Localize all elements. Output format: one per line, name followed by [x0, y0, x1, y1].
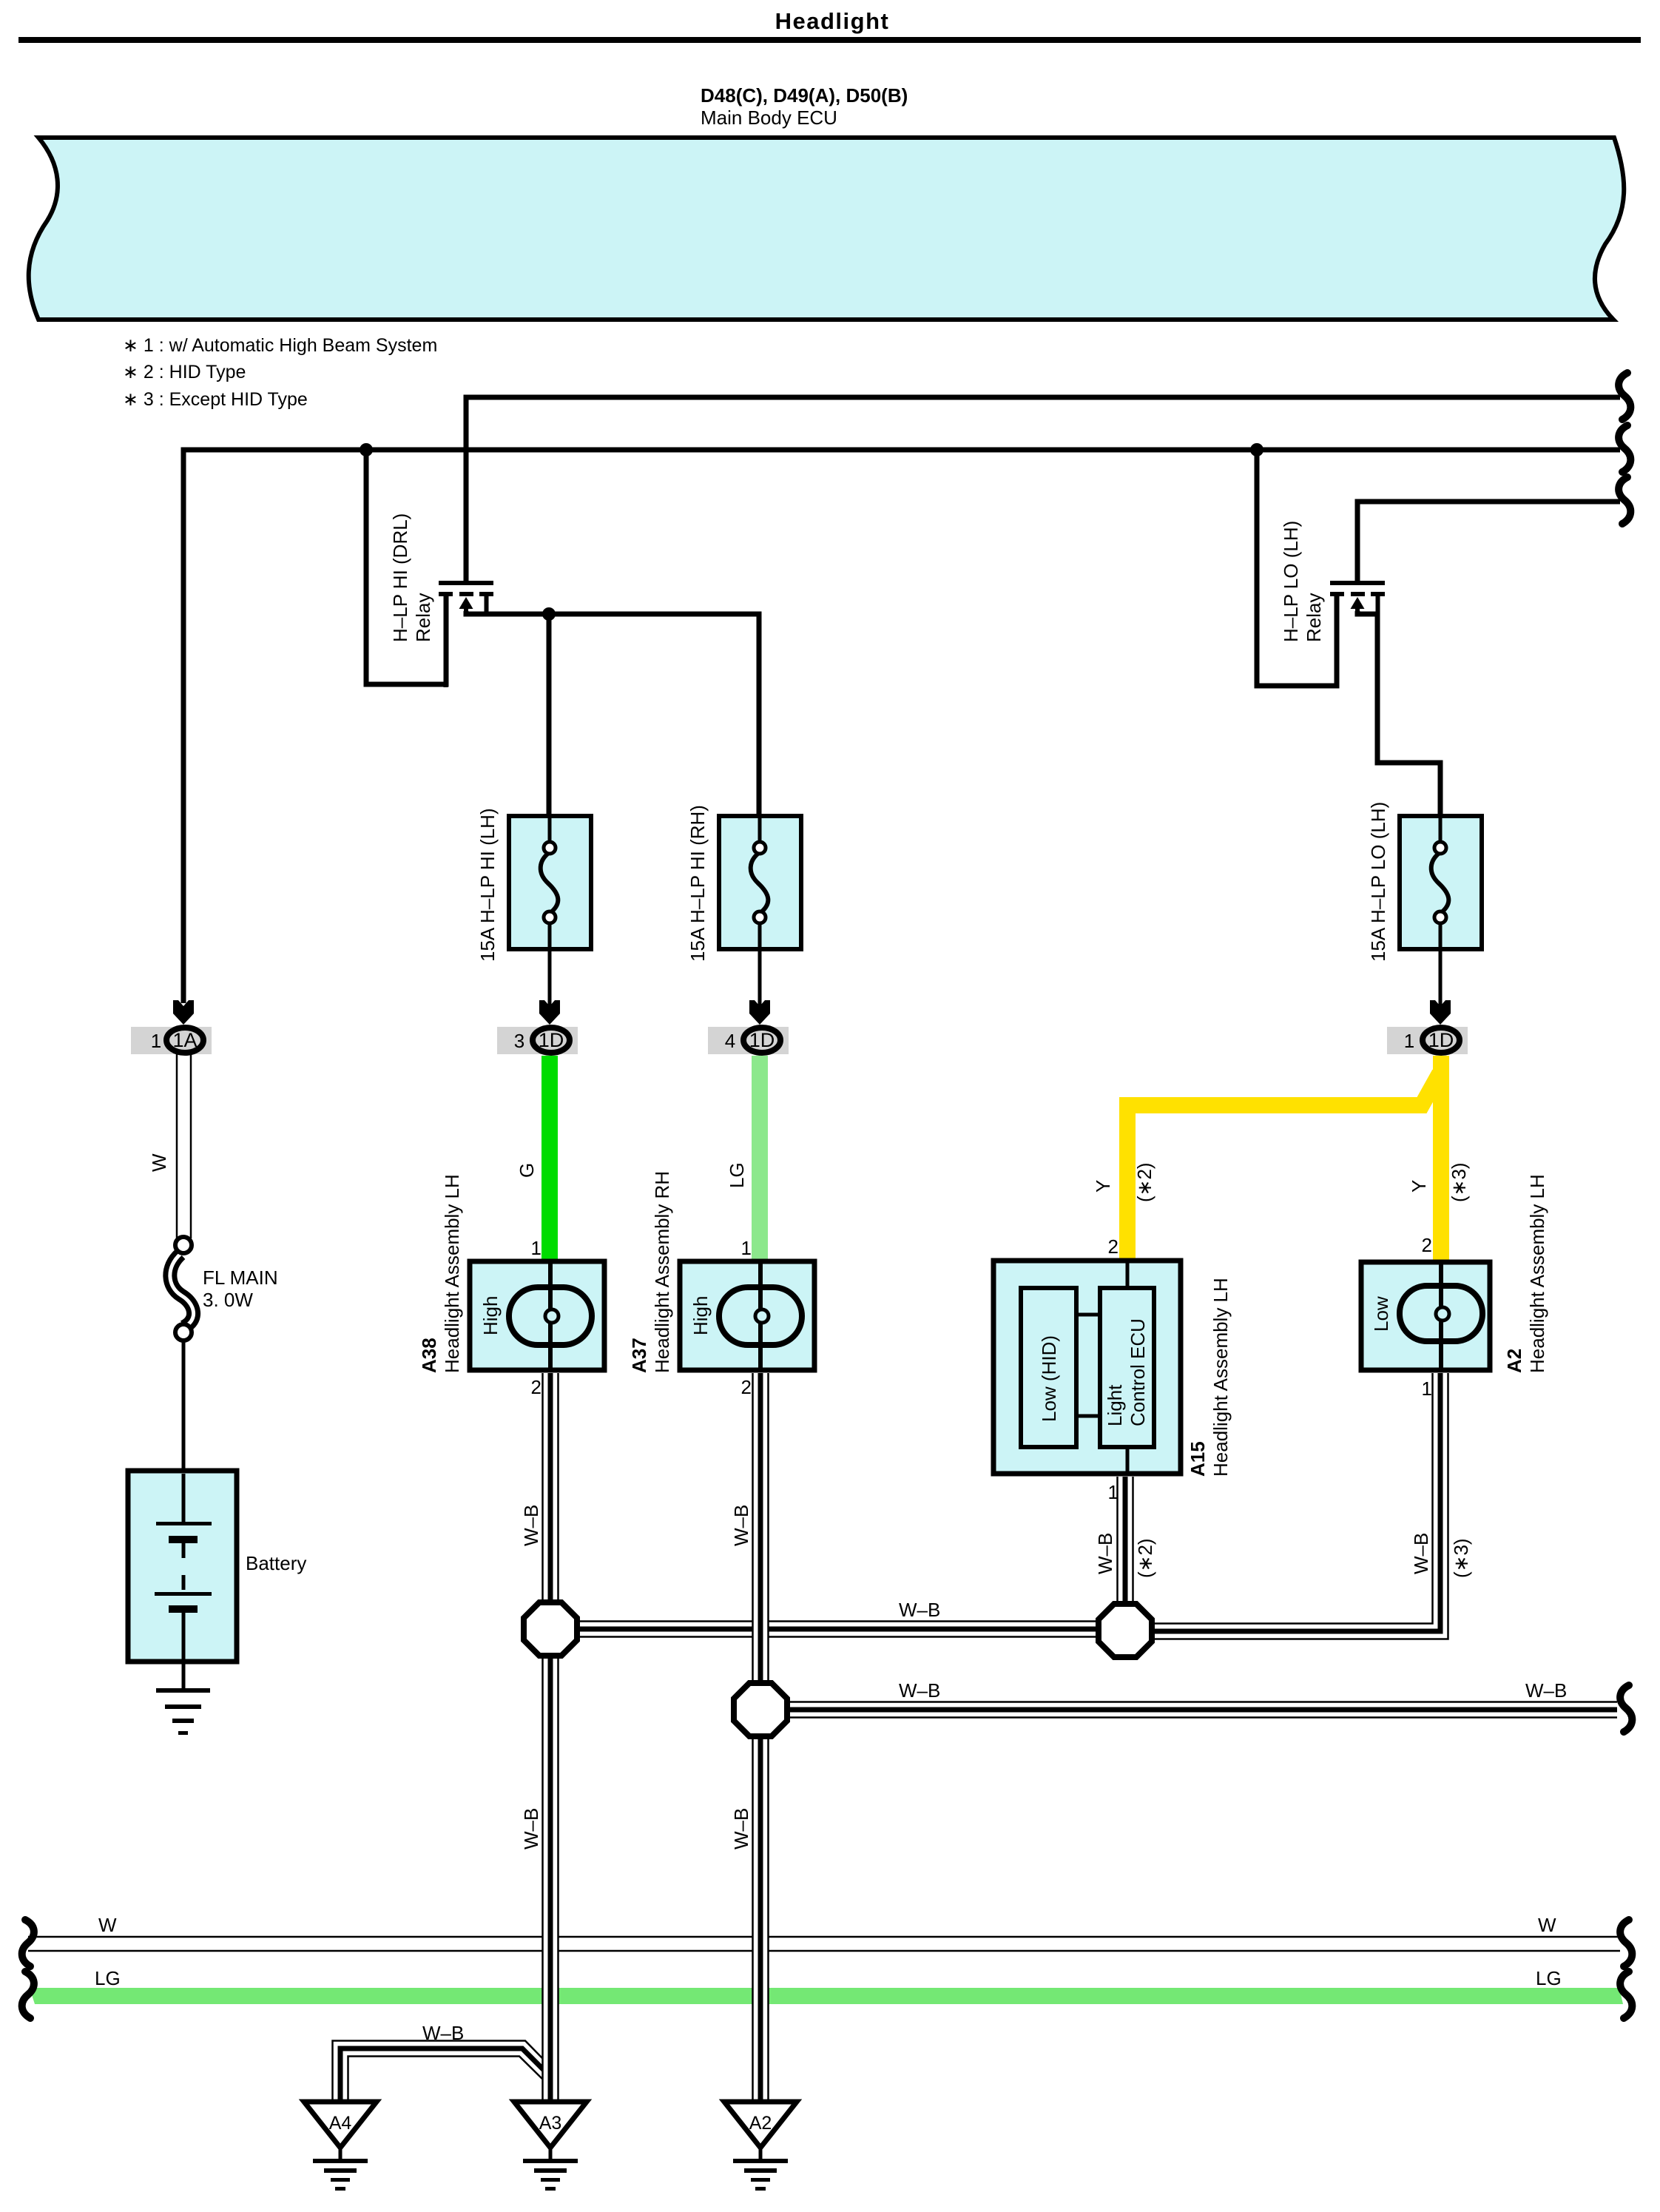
wire bus row2 main feed	[183, 450, 1620, 1003]
svg-text:H–LP HI (DRL): H–LP HI (DRL)	[389, 513, 411, 642]
svg-text:∗ 2 : HID Type: ∗ 2 : HID Type	[123, 362, 246, 382]
fuse 15A H-LP HI (LH)	[509, 816, 591, 1006]
svg-text:3: 3	[514, 1030, 524, 1052]
svg-text:3. 0W: 3. 0W	[203, 1289, 253, 1311]
svg-text:H–LP LO (LH): H–LP LO (LH)	[1280, 521, 1302, 642]
ground A4	[304, 2102, 377, 2191]
svg-text:(∗2): (∗2)	[1133, 1162, 1155, 1202]
fuse 15A H-LP LO (LH)	[1400, 816, 1482, 1006]
wire relay1 output branch to fuse1	[547, 614, 552, 818]
wire Y yellow branch to A15	[1127, 1073, 1440, 1262]
svg-text:W–B: W–B	[520, 1808, 542, 1849]
break left W	[22, 1920, 34, 1966]
fusible link FL MAIN 3.0W	[170, 1237, 194, 1341]
wire W white from 1A	[177, 1054, 191, 1238]
svg-text:High: High	[689, 1296, 712, 1335]
fuse 15A H-LP HI (RH)	[719, 816, 801, 1006]
svg-text:Battery: Battery	[246, 1552, 306, 1574]
svg-text:A37: A37	[628, 1338, 650, 1373]
svg-text:Control ECU: Control ECU	[1127, 1318, 1149, 1426]
svg-text:W–B: W–B	[520, 1505, 542, 1546]
label relay2	[1280, 521, 1325, 642]
battery	[128, 1471, 237, 1690]
svg-text:1: 1	[1422, 1378, 1432, 1400]
wire Y yellow to A2	[1433, 1056, 1449, 1262]
svg-text:A2: A2	[1503, 1349, 1525, 1373]
svg-text:1D: 1D	[539, 1029, 564, 1051]
svg-text:1: 1	[741, 1237, 752, 1259]
wire W-B A37 down to octagon2	[753, 1373, 769, 1683]
svg-text:∗ 3 : Except HID Type: ∗ 3 : Except HID Type	[123, 389, 308, 410]
connector 3 1D	[497, 1000, 578, 1054]
svg-text:Light: Light	[1104, 1384, 1126, 1426]
svg-text:Relay: Relay	[412, 593, 434, 642]
Main Body ECU band	[29, 138, 1624, 320]
svg-text:W–B: W–B	[730, 1808, 752, 1849]
break left LG	[22, 1972, 34, 2018]
wire LG light green	[752, 1056, 768, 1261]
svg-text:W: W	[148, 1153, 170, 1172]
break right W-B	[1620, 1685, 1632, 1732]
wire W-B octagon2 down to ground A2	[753, 1736, 769, 2100]
svg-text:1A: 1A	[172, 1029, 197, 1051]
junction octagon 1	[524, 1602, 577, 1656]
svg-text:15A H–LP HI (RH): 15A H–LP HI (RH)	[686, 805, 709, 962]
wire relay1 output to fuses	[466, 611, 759, 818]
junction octagon 3	[1099, 1604, 1152, 1657]
bus LG bottom	[30, 1988, 1623, 2004]
svg-text:G: G	[516, 1163, 538, 1178]
headlight assembly LH A15 (Low HID / Light Control ECU)	[993, 1261, 1181, 1474]
svg-text:Y: Y	[1408, 1180, 1430, 1193]
svg-text:Headlight Assembly LH: Headlight Assembly LH	[1209, 1278, 1232, 1477]
svg-text:A3: A3	[539, 2113, 562, 2134]
connector 4 1D	[708, 1000, 789, 1054]
svg-text:A15: A15	[1187, 1441, 1209, 1477]
svg-text:4: 4	[725, 1030, 735, 1052]
svg-text:1: 1	[531, 1237, 541, 1259]
ground battery	[156, 1688, 210, 1735]
svg-text:High: High	[479, 1296, 502, 1335]
svg-text:Low (HID): Low (HID)	[1038, 1335, 1060, 1422]
node junction relay1 output	[542, 607, 556, 621]
label relay1	[389, 513, 434, 642]
svg-text:(∗3): (∗3)	[1448, 1162, 1470, 1202]
break right LG	[1620, 1972, 1632, 2018]
bus W bottom	[28, 1937, 1620, 1951]
svg-text:1D: 1D	[1428, 1029, 1454, 1051]
svg-text:(∗3): (∗3)	[1450, 1538, 1472, 1578]
svg-text:LG: LG	[726, 1162, 748, 1188]
headlight assembly RH A37 (High)	[680, 1261, 814, 1370]
junction octagon 2	[734, 1683, 787, 1736]
svg-text:W–B: W–B	[730, 1505, 752, 1546]
wire G green	[541, 1056, 558, 1261]
svg-text:W–B: W–B	[899, 1679, 940, 1702]
svg-text:A2: A2	[749, 2113, 772, 2134]
relay H-LP LO (LH) contact	[1330, 581, 1385, 687]
wire relay1 coil loop	[366, 448, 446, 684]
wire W-B octagon3 to A2 pin1	[1145, 1373, 1448, 1639]
headlight assembly LH A2 (Low)	[1361, 1262, 1490, 1370]
svg-text:1D: 1D	[749, 1029, 775, 1051]
wire W-B octagon1 to octagon3	[570, 1622, 1106, 1637]
svg-text:W–B: W–B	[1410, 1533, 1432, 1574]
svg-text:W: W	[1538, 1914, 1556, 1936]
svg-text:1: 1	[151, 1030, 161, 1052]
relay H-LP HI (DRL) contact	[439, 581, 493, 687]
svg-text:Y: Y	[1092, 1180, 1114, 1193]
svg-text:W–B: W–B	[899, 1599, 940, 1621]
ground A2	[724, 2102, 797, 2191]
svg-text:(∗2): (∗2)	[1134, 1538, 1156, 1578]
break right row1	[1619, 373, 1630, 419]
node junction on row2 left	[360, 443, 373, 456]
wire W-B A4 jog	[333, 2041, 546, 2100]
svg-text:D48(C), D49(A), D50(B): D48(C), D49(A), D50(B)	[701, 84, 908, 107]
svg-text:1: 1	[1404, 1030, 1414, 1052]
break right W	[1620, 1920, 1632, 1966]
svg-text:Low: Low	[1370, 1296, 1392, 1332]
ground A3	[514, 2102, 587, 2191]
wire W-B A38 down to octagon1	[543, 1373, 559, 1602]
wire W-B A15 pin1 to octagon3	[1118, 1477, 1133, 1604]
svg-text:FL MAIN: FL MAIN	[203, 1267, 278, 1289]
svg-text:Headlight Assembly LH: Headlight Assembly LH	[441, 1174, 463, 1373]
connector 1 1D	[1387, 1000, 1468, 1054]
connector 1 1A	[131, 1000, 212, 1054]
title rule	[18, 37, 1641, 43]
svg-text:W–B: W–B	[1525, 1679, 1567, 1702]
svg-text:A4: A4	[329, 2113, 352, 2134]
svg-text:2: 2	[531, 1376, 541, 1398]
svg-text:LG: LG	[95, 1967, 121, 1989]
break right row2	[1619, 425, 1630, 472]
svg-text:15A H–LP LO (LH): 15A H–LP LO (LH)	[1367, 802, 1389, 962]
svg-text:∗ 1 : w/ Automatic High Beam S: ∗ 1 : w/ Automatic High Beam System	[123, 335, 437, 356]
svg-text:Relay: Relay	[1303, 593, 1325, 642]
svg-text:W: W	[98, 1914, 117, 1936]
wire relay2 output to fuse3	[1357, 611, 1440, 818]
wire relay2 coil loop	[1257, 448, 1337, 686]
svg-text:W–B: W–B	[1094, 1533, 1116, 1574]
svg-text:Main Body ECU: Main Body ECU	[701, 107, 837, 129]
svg-text:W–B: W–B	[422, 2022, 464, 2044]
svg-text:Headlight Assembly RH: Headlight Assembly RH	[651, 1171, 673, 1373]
headlight assembly LH A38 (High)	[470, 1261, 604, 1370]
svg-text:Headlight: Headlight	[775, 8, 890, 34]
wire bus row1 to relay1 gate	[466, 397, 1620, 581]
break right row3	[1619, 477, 1630, 524]
svg-text:2: 2	[1108, 1235, 1119, 1258]
svg-text:A38: A38	[418, 1338, 440, 1373]
svg-text:15A H–LP HI (LH): 15A H–LP HI (LH)	[476, 808, 499, 962]
svg-text:2: 2	[741, 1376, 752, 1398]
svg-text:2: 2	[1422, 1234, 1432, 1256]
node junction on row2 right	[1250, 443, 1263, 456]
wire bus row3 to relay2 gate	[1357, 502, 1620, 581]
svg-text:LG: LG	[1536, 1967, 1562, 1989]
svg-text:Headlight Assembly LH: Headlight Assembly LH	[1526, 1174, 1548, 1373]
wire W-B octagon2 to right break	[780, 1702, 1617, 1718]
wire FL to battery	[182, 1341, 186, 1474]
wire W-B octagon1 down to ground A3	[543, 1656, 559, 2100]
